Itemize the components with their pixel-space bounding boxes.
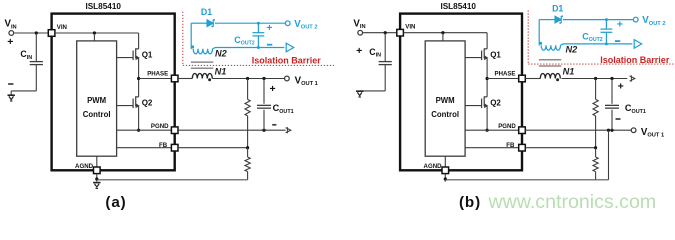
node N2 polarity dot (b) (539, 42, 542, 45)
wire secondary left vertical (a) (190, 23, 192, 49)
wire output top rail (b) (562, 78, 628, 80)
wire secondary top rail (b) (539, 19, 555, 21)
pin AGND (b) (442, 167, 449, 174)
svg-text:N1: N1 (215, 67, 227, 77)
wire PWM to AGND (b) (444, 156, 446, 167)
resistor R1 divider top (a) (247, 79, 249, 100)
wire AGND below (a) (96, 174, 98, 182)
wire FB rail (b) (525, 147, 595, 149)
svg-text:(b): (b) (459, 194, 481, 211)
node N2 polarity dot (a) (191, 45, 194, 48)
wire FB row (b) (465, 147, 522, 149)
svg-text:PHASE: PHASE (495, 71, 516, 78)
wire Q1 source to Q2 drain (b) (486, 58, 488, 97)
wire FB row (a) (117, 147, 175, 149)
wire Q1 drain (a) (138, 33, 140, 49)
transistor Q2 (b) (484, 96, 487, 98)
svg-text:+: + (270, 83, 276, 95)
wire Q2 gate (b) (465, 105, 482, 107)
arrow output top rail (b) (630, 76, 635, 81)
svg-text:D1: D1 (201, 7, 212, 17)
svg-text:(a): (a) (105, 194, 126, 211)
svg-text:+: + (617, 18, 623, 30)
junction R1 top (b) (594, 77, 597, 80)
svg-text:VIN: VIN (405, 24, 415, 31)
svg-text:Q2: Q2 (142, 98, 153, 107)
wire isolation barrier dashed vertical (a) (182, 12, 184, 66)
wire PGND row (b) (465, 129, 522, 131)
junction PGND node (a) (137, 129, 140, 132)
wire FB rail (a) (178, 147, 248, 149)
svg-text:N2: N2 (566, 45, 579, 55)
inductor N2 winding (a) (193, 49, 212, 54)
node VIN terminal circuit (b) (358, 30, 363, 35)
svg-text:N2: N2 (215, 48, 228, 58)
capacitor COUT2 (b) (605, 20, 607, 29)
diode D1 schottky (a) (207, 20, 213, 27)
wire VIN rail inside (a) (55, 32, 139, 34)
junction COUT2 bottom (a) (257, 46, 260, 49)
pin VIN (a) (48, 30, 55, 37)
svg-text:N1: N1 (563, 67, 575, 77)
junction AGND (b) (444, 177, 447, 180)
wire PWM to AGND (a) (96, 156, 98, 167)
junction COUT1 bottom (b) (610, 129, 613, 132)
op PWM Control box (a) (77, 41, 117, 156)
transformer core lines (b) (539, 59, 561, 61)
arrow secondary output (a) (286, 43, 294, 52)
svg-text:D1: D1 (552, 3, 563, 13)
junction COUT1 bottom (a) (262, 129, 265, 132)
wire AGND riser to rail (b) (608, 130, 610, 180)
pin PGND (a) (171, 127, 178, 134)
wire PHASE node to pin (a) (139, 78, 175, 80)
diode D1 schottky (b) (555, 16, 561, 23)
wire Q1 source to Q2 drain (a) (138, 58, 140, 97)
junction COUT2 bottom (b) (605, 42, 608, 45)
wire secondary left vertical (b) (538, 20, 540, 46)
svg-text:Q2: Q2 (490, 98, 501, 107)
wire PGND rail (a) (178, 129, 286, 131)
pin VIN (b) (397, 29, 404, 36)
wire Q1 gate (a) (117, 57, 134, 59)
label minus input (a) (8, 83, 13, 85)
wire Q2 source to PGND (a) (138, 106, 140, 131)
wire AGND return line (b) (445, 179, 608, 181)
ground input (a) (8, 94, 15, 96)
label minus output (a) (272, 124, 276, 126)
svg-text:PGND: PGND (498, 123, 516, 130)
wire isolation barrier dashed vertical (b) (527, 10, 529, 64)
node VIN terminal circuit (a) (9, 31, 14, 36)
wire CIN to ground (b) (360, 90, 386, 92)
junction COUT2 top (a) (257, 22, 260, 25)
junction FB node (b) (594, 146, 597, 149)
node N1 polarity dot (a) (208, 78, 211, 81)
arrow secondary output (b) (634, 40, 642, 49)
node N1 polarity dot (b) (556, 78, 559, 81)
wire secondary bottom rail (b) (561, 44, 633, 45)
transistor Q2 (a) (136, 96, 139, 98)
capacitor COUT1 (b) (611, 79, 613, 104)
label minus COUT2 (a) (267, 44, 272, 46)
transformer core lines (a) (191, 61, 213, 63)
arrow PGND rail (a) (286, 128, 291, 133)
pin FB (a) (171, 144, 178, 151)
ground AGND (a) (93, 182, 100, 184)
svg-text:Q1: Q1 (490, 50, 501, 59)
node VOUT1 terminal (a) (285, 76, 290, 81)
svg-text:ISL85410: ISL85410 (440, 2, 476, 11)
svg-text:Q1: Q1 (142, 50, 153, 59)
svg-text:Isolation Barrier: Isolation Barrier (600, 55, 670, 65)
junction PWM top (b) (441, 31, 444, 34)
svg-text:Control: Control (83, 110, 111, 119)
svg-text:AGND: AGND (424, 163, 443, 170)
wire PHASE to N1 (a) (178, 78, 192, 80)
wire VOUT1 rail (a) (212, 78, 284, 80)
junction PHASE node (a) (137, 77, 140, 80)
pin PGND (b) (519, 127, 526, 134)
wire CIN to ground (a) (11, 90, 36, 92)
svg-text:ISL85410: ISL85410 (85, 2, 121, 11)
wire PHASE to N1 (b) (525, 78, 540, 80)
svg-text:+: + (266, 22, 272, 34)
node VOUT2 terminal (b) (633, 17, 638, 22)
wire isolation barrier dashed horizontal (b) (528, 63, 675, 65)
junction COUT1 top (a) (262, 77, 265, 80)
wire Q2 gate (a) (117, 105, 134, 107)
wire VIN to IC (b) (363, 32, 400, 34)
wire VIN rail inside (b) (403, 32, 487, 34)
junction riser (b) (607, 129, 610, 132)
svg-text:AGND: AGND (75, 163, 94, 170)
resistor R2 divider bottom (b) (595, 148, 597, 157)
svg-text:PHASE: PHASE (147, 71, 168, 78)
wire VOUT1 bottom rail (b) (525, 129, 631, 131)
svg-text:PGND: PGND (151, 123, 169, 130)
resistor R2 divider bottom (a) (247, 148, 249, 157)
capacitor CIN (a) (35, 33, 37, 61)
junction PHASE node (b) (486, 77, 489, 80)
wire isolation barrier dashed horizontal (a) (183, 64, 334, 66)
inductor N1 winding (a) (192, 74, 212, 79)
wire VIN to IC (a) (14, 32, 51, 34)
svg-text:VIN: VIN (57, 24, 67, 31)
wire Q2 source to PGND (b) (486, 106, 488, 131)
inductor N1 winding (b) (540, 74, 560, 79)
junction PGND node (b) (486, 129, 489, 132)
pin PHASE (b) (519, 75, 526, 82)
wire PGND row (a) (117, 129, 175, 131)
node VOUT1 terminal (b) (631, 128, 636, 133)
svg-text:www.cntronics.com: www.cntronics.com (488, 191, 657, 213)
pin AGND (a) (94, 167, 101, 174)
svg-text:+: + (356, 45, 362, 57)
capacitor COUT2 (a) (257, 23, 259, 32)
resistor R1 divider top (b) (595, 79, 597, 100)
wire secondary top rail (a) (191, 22, 207, 24)
wire AGND below (b) (444, 174, 446, 182)
wire D1 to VOUT2 (b) (563, 19, 633, 21)
svg-text:FB: FB (159, 142, 168, 149)
ground input (b) (356, 90, 363, 92)
transistor Q1 (a) (136, 48, 139, 50)
label minus output (b) (616, 118, 621, 120)
junction COUT2 top (b) (605, 18, 608, 21)
wire AGND return line (a) (97, 179, 248, 181)
capacitor CIN (b) (384, 33, 386, 62)
op PWM Control box (b) (425, 41, 465, 156)
node VOUT2 terminal (a) (285, 21, 290, 26)
op IC ISL85410 box (b) (400, 14, 522, 171)
wire secondary bottom rail (a) (213, 48, 285, 49)
pin FB (b) (519, 144, 526, 151)
svg-text:FB: FB (506, 142, 515, 149)
svg-text:PWM: PWM (87, 96, 106, 105)
inductor N2 winding (b) (541, 45, 560, 50)
pin PHASE (a) (171, 75, 178, 82)
wire D1 to VOUT2 (a) (215, 22, 285, 24)
junction R1 top (a) (246, 77, 249, 80)
junction FB node (a) (246, 146, 249, 149)
svg-text:+: + (7, 36, 13, 48)
junction CIN top (b) (384, 31, 387, 34)
op IC ISL85410 box (a) (52, 14, 175, 171)
junction AGND (a) (95, 177, 98, 180)
svg-text:Isolation Barrier: Isolation Barrier (252, 56, 322, 66)
junction COUT1 top (b) (610, 77, 613, 80)
capacitor COUT1 (a) (263, 79, 265, 104)
wire Q1 gate (b) (465, 57, 482, 59)
transistor Q1 (b) (484, 48, 487, 50)
label minus COUT2 (b) (615, 40, 620, 42)
svg-text:+: + (618, 81, 624, 93)
svg-text:PWM: PWM (436, 96, 455, 105)
wire Q1 drain (b) (486, 33, 488, 49)
wire PHASE node to pin (b) (487, 78, 522, 80)
junction CIN top (a) (35, 31, 38, 34)
svg-text:Control: Control (431, 110, 459, 119)
junction PWM top (a) (93, 31, 96, 34)
